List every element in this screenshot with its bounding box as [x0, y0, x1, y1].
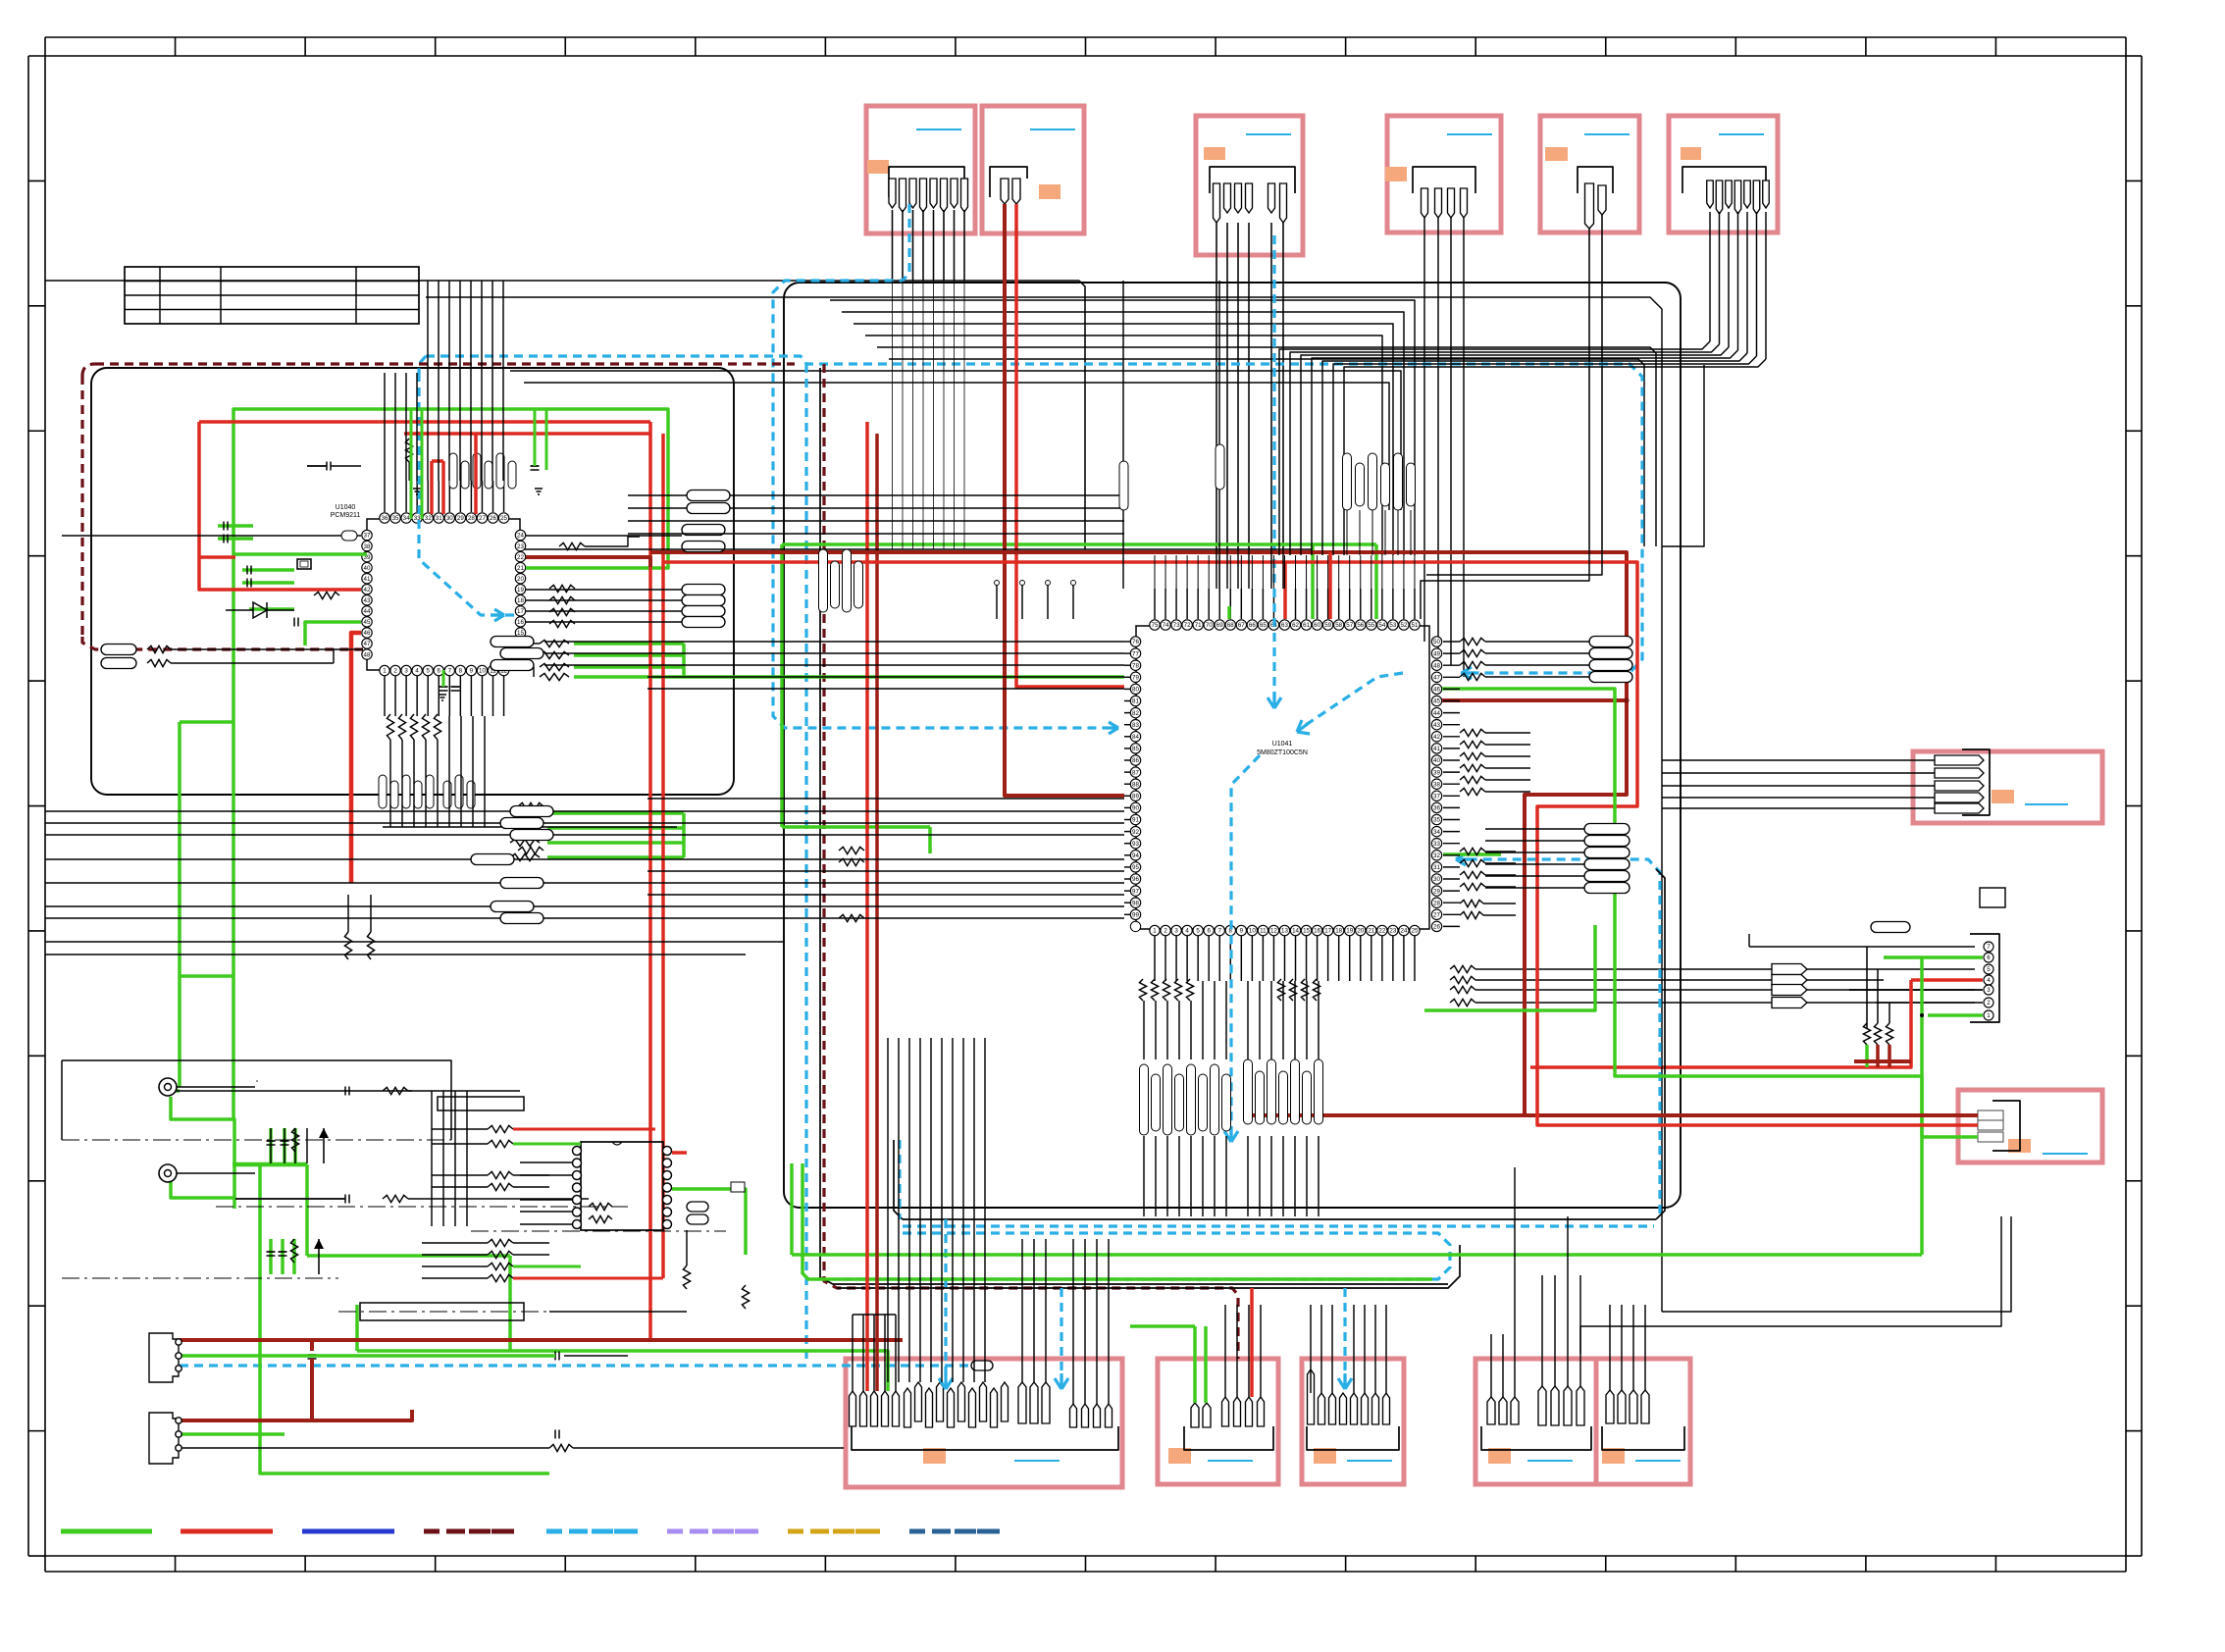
svg-text:57: 57: [1346, 622, 1353, 629]
J1 bundle continues down: [892, 281, 894, 549]
svg-text:34: 34: [1433, 829, 1440, 836]
block outline around U1040: [91, 368, 734, 795]
svg-text:4: 4: [1185, 928, 1189, 935]
svg-text:17: 17: [517, 608, 524, 615]
caps cluster1 black: [270, 1128, 272, 1163]
svg-text:20: 20: [1357, 928, 1364, 935]
left black wire pin37: [62, 535, 361, 537]
connector box J3 (top): [1196, 116, 1303, 255]
salmon highlight J7: [1992, 790, 2014, 803]
U1041 left long wires with flags: [544, 641, 1124, 643]
red short top stubs above U1040: [430, 461, 434, 514]
cyan dashed long top horizontal: [426, 356, 1642, 673]
bottom long black y1337: [549, 1311, 687, 1313]
cyan dashed from J1 pin4 along block edge: [773, 204, 1107, 728]
svg-text:60: 60: [1314, 622, 1320, 629]
U1041 top pin long verticals: [1154, 555, 1156, 589]
green U1040 pin38 stub: [233, 552, 367, 556]
green vertical left long: [232, 554, 235, 1119]
U1040 top pins 36-25: [380, 513, 389, 523]
block outline around U1041: [784, 283, 1681, 1208]
svg-text:PCM9211: PCM9211: [331, 512, 361, 519]
J11 wires: [1310, 1305, 1312, 1393]
opamp out green: [672, 1189, 746, 1255]
red second jack wire: [180, 1419, 312, 1422]
connector box J8 (right lower): [1958, 1090, 2102, 1162]
svg-text:26: 26: [1433, 924, 1440, 931]
green stub pin32 area: [1443, 852, 1501, 856]
salmon highlight J8: [2008, 1139, 2031, 1153]
dark red pin22 route right: [526, 557, 650, 567]
svg-text:37: 37: [1433, 794, 1440, 800]
resistors right bottom pins 27/26: [1460, 900, 1483, 906]
phone jack TRS2: [159, 1164, 177, 1182]
svg-text:50: 50: [1433, 639, 1440, 645]
salmon highlight J4: [1385, 167, 1407, 181]
green into U1041 pin94/95 area: [928, 827, 932, 853]
green inner loop right of U1041: [1424, 925, 1595, 1010]
red caps right of U1041: [1854, 1059, 1911, 1063]
svg-text:6: 6: [438, 668, 441, 675]
svg-text:3: 3: [1174, 928, 1178, 935]
svg-text:28: 28: [1433, 900, 1440, 906]
resistors below CN: [1863, 1023, 1870, 1045]
svg-text:91: 91: [1132, 817, 1139, 824]
bracket J13: [1602, 1426, 1684, 1450]
svg-text:12: 12: [1270, 928, 1277, 935]
resistor net pins 23: [559, 542, 585, 549]
bottom bus under U1040: [383, 826, 677, 828]
main IC U1041 5M80ZT100C5N body: [1136, 626, 1429, 929]
U1041 bottom pins 1-25: [1150, 925, 1160, 935]
wires J6 down: [1709, 212, 1711, 341]
opamp in wires: [520, 1162, 573, 1163]
svg-text:87: 87: [1132, 769, 1139, 776]
svg-text:5: 5: [1987, 966, 1991, 973]
svg-text:33: 33: [1433, 841, 1440, 848]
bracket J3: [1210, 167, 1295, 193]
svg-text:55: 55: [1368, 622, 1374, 629]
svg-text:18: 18: [1335, 928, 1342, 935]
black verticals between capsule and boxes mid: [1021, 1239, 1023, 1382]
green riser x807: [790, 1163, 794, 1255]
maroon dashed vertical center: [824, 364, 1238, 1359]
svg-text:54: 54: [1378, 622, 1385, 629]
U1041 top pins 75-51: [1150, 620, 1160, 630]
green lower rows below U1040: [547, 811, 684, 815]
connector box J4 (top): [1387, 116, 1501, 232]
green left column x183: [178, 722, 181, 1087]
svg-text:17: 17: [1324, 928, 1331, 935]
resistor rows middle: [488, 1125, 513, 1132]
svg-text:47: 47: [1433, 675, 1440, 682]
svg-text:21: 21: [517, 565, 524, 572]
svg-text:45: 45: [1433, 698, 1440, 705]
green rows into resistors: [510, 809, 540, 816]
wires continue below capsule to bottom boxes: [887, 1038, 889, 1382]
diode up arrow 2: [314, 1239, 324, 1249]
svg-text:35: 35: [392, 515, 399, 522]
connector box J7 (right middle): [1913, 751, 2102, 823]
svg-text:40: 40: [1433, 757, 1440, 764]
crystal X1: [297, 559, 311, 569]
svg-text:16: 16: [517, 619, 524, 626]
cyan dashed from top into U1041: [1272, 235, 1275, 704]
connector box J13 (bottom): [1596, 1359, 1690, 1484]
green above U1040: [410, 409, 413, 519]
svg-text:42: 42: [1433, 734, 1440, 741]
svg-text:80: 80: [1132, 687, 1139, 694]
svg-text:2: 2: [1987, 1000, 1991, 1007]
svg-text:7: 7: [1218, 928, 1222, 935]
svg-text:66: 66: [1249, 622, 1256, 629]
salmon highlight J1: [867, 160, 889, 174]
J9 left pins wires: [852, 1315, 854, 1391]
dark red leftward extension at 1137: [1244, 1113, 1525, 1117]
bracket J10: [1184, 1426, 1273, 1450]
svg-text:6: 6: [1987, 955, 1991, 961]
green caps cluster2: [269, 1239, 273, 1274]
resistor R left pin41: [314, 592, 339, 598]
svg-text:53: 53: [1389, 622, 1396, 629]
svg-text:5: 5: [426, 668, 430, 675]
green bottom-left to J9: [357, 1351, 888, 1391]
cyan dashed diagonal from pin47 side: [1297, 673, 1403, 731]
maroon dashed bottom to U1040 pin47: [82, 637, 363, 649]
pins J9 group3: [1018, 1382, 1026, 1423]
pins J12: [1487, 1397, 1495, 1424]
red jack cap branch: [310, 1340, 314, 1351]
svg-text:45: 45: [364, 619, 371, 626]
svg-text:5M80ZT100C5N: 5M80ZT100C5N: [1257, 749, 1308, 756]
underline J8: [2043, 1153, 2088, 1155]
svg-text:43: 43: [1433, 722, 1440, 729]
svg-text:13: 13: [1281, 928, 1288, 935]
svg-text:95: 95: [1132, 864, 1139, 871]
cyan dashed down to J9: [944, 1219, 947, 1385]
legend wire colour samples: [61, 1529, 152, 1534]
flag left y662: [101, 645, 136, 655]
svg-text:°: °: [256, 1079, 259, 1087]
pins J7: [1935, 755, 1984, 765]
svg-text:69: 69: [1216, 622, 1223, 629]
cyan dashed capsule to right riser: [1456, 859, 1660, 1213]
svg-text:14: 14: [1292, 928, 1299, 935]
svg-text:88: 88: [1132, 781, 1139, 788]
svg-text:37: 37: [364, 533, 371, 540]
svg-text:4: 4: [1987, 977, 1991, 984]
svg-text:44: 44: [364, 608, 371, 615]
bracket J2: [990, 167, 1027, 197]
svg-text:67: 67: [1238, 622, 1245, 629]
7-pin connector CN (right): [1970, 934, 1999, 1022]
svg-text:U1041: U1041: [1272, 741, 1293, 748]
svg-text:20: 20: [517, 576, 524, 583]
svg-text:18: 18: [517, 597, 524, 604]
green caps cluster1: [269, 1128, 273, 1164]
black net joins above J12: [1567, 1216, 1569, 1275]
black line return y1313: [837, 1245, 1460, 1288]
cyan dashed stub J9 right: [1060, 1288, 1062, 1385]
red caps pair left: [199, 555, 235, 559]
right mid wires: [1485, 732, 1530, 734]
black partner of maroon vertical: [820, 368, 1448, 1284]
pins J13: [1606, 1390, 1614, 1423]
cyan dashed bottom-left long wire: [180, 1364, 971, 1367]
salmon highlight J2: [1039, 184, 1061, 199]
series resistors to flags y1230: [589, 1203, 612, 1210]
svg-text:65: 65: [1260, 622, 1267, 629]
black capsule border: [903, 1218, 1656, 1220]
svg-text:77: 77: [1132, 650, 1139, 657]
svg-text:30: 30: [446, 515, 453, 522]
shield box outline: [62, 1060, 451, 1140]
green wire CN pin6 route: [1920, 957, 1924, 1255]
svg-text:94: 94: [1132, 852, 1139, 859]
diode up arrow 1: [319, 1128, 329, 1138]
svg-text:73: 73: [1173, 622, 1180, 629]
svg-text:44: 44: [1433, 710, 1440, 717]
svg-text:7: 7: [448, 668, 452, 675]
svg-text:97: 97: [1132, 888, 1139, 895]
no-connect stubs U1041 left: [996, 585, 998, 619]
green U1041 area: pin columns: [1227, 606, 1231, 619]
resistor net right pins 20-17: [549, 585, 575, 592]
vertical net x1737: [1662, 365, 1704, 546]
red top rectangle around U1040: [199, 420, 650, 424]
green caps pair left of U1040: [218, 524, 253, 528]
U1041 left pin wires: [1124, 641, 1130, 643]
maroon dashed left side: [80, 376, 83, 637]
svg-text:42: 42: [364, 587, 371, 594]
svg-text:2: 2: [1164, 928, 1167, 935]
caps cluster2 black: [267, 1251, 276, 1253]
red drops into U1041 top pins: [1283, 562, 1287, 619]
green segments crystal area: [242, 568, 294, 572]
svg-text:43: 43: [364, 597, 371, 604]
svg-text:19: 19: [517, 587, 524, 594]
underline J7: [2025, 803, 2068, 805]
svg-text:99: 99: [1132, 912, 1139, 919]
bracket J12: [1481, 1426, 1591, 1450]
svg-text:40: 40: [364, 565, 371, 572]
wires U1040 top to bus: [384, 373, 386, 481]
svg-text:29: 29: [1433, 888, 1440, 895]
red vertical long x664: [648, 422, 652, 1340]
bracket J7: [1962, 749, 1990, 815]
revision table: [125, 267, 419, 324]
svg-text:98: 98: [1132, 900, 1139, 906]
svg-text:24: 24: [1400, 928, 1407, 935]
svg-text:15: 15: [1303, 928, 1310, 935]
green pin14/13 rows right of U1040: [574, 642, 684, 645]
svg-text:26: 26: [490, 515, 496, 522]
cyan dashed down from center to bottom: [1231, 755, 1260, 1138]
svg-text:7: 7: [1987, 944, 1991, 951]
U1041 left pins 76-100: [1130, 637, 1140, 646]
pins J10: [1191, 1403, 1199, 1427]
pins J2: [1001, 179, 1009, 204]
resistor clusters right mid: [1460, 729, 1485, 736]
svg-text:36: 36: [382, 515, 388, 522]
svg-text:U1040: U1040: [336, 504, 356, 511]
svg-text:25: 25: [500, 515, 507, 522]
diode D1: [253, 602, 267, 618]
svg-text:76: 76: [1132, 639, 1139, 645]
red thick pair to J9: [865, 422, 869, 1391]
svg-text:46: 46: [1433, 687, 1440, 694]
caps left of U1040 group1: [223, 522, 225, 531]
bracket J9: [852, 1426, 1118, 1450]
green left drop to pin79: [782, 825, 930, 829]
svg-text:3: 3: [1987, 987, 1991, 994]
cyan dashed capsule upper: [903, 1224, 1654, 1227]
svg-text:90: 90: [1132, 805, 1139, 812]
svg-text:36: 36: [1433, 805, 1440, 812]
svg-text:59: 59: [1324, 622, 1331, 629]
svg-text:85: 85: [1132, 746, 1139, 752]
green jack2 route: [171, 1173, 234, 1198]
flags between blocks: [687, 490, 730, 501]
J12 left pins wires: [1490, 1334, 1492, 1397]
green into J8: [1922, 1135, 1978, 1139]
resistor cluster right of U1041 top: [1460, 638, 1485, 645]
L nets right of J12: [1580, 1216, 2001, 1354]
svg-text:6: 6: [1207, 928, 1211, 935]
mid dash labels: [471, 1230, 726, 1232]
green thick segment y1187: [233, 1162, 307, 1167]
wires pins 14 13 to resistors: [526, 643, 540, 645]
svg-text:83: 83: [1132, 722, 1139, 729]
cyan arrowhead at U1041 pin93: [1107, 722, 1118, 734]
connector box J2 (top): [982, 106, 1084, 233]
green long row to U1041 pin79: [574, 675, 1124, 679]
legend wire colour samples: [61, 1529, 152, 1534]
svg-text:51: 51: [1412, 622, 1419, 629]
svg-text:48: 48: [1433, 662, 1440, 669]
svg-text:89: 89: [1132, 794, 1139, 800]
pins J11: [1308, 1369, 1315, 1424]
connector box J12 (bottom): [1475, 1359, 1596, 1484]
sheet border left ruler: [27, 56, 29, 1556]
red vertical into J10 area: [1250, 1288, 1254, 1397]
svg-text:8: 8: [459, 668, 463, 675]
pill on J1 long bundle: [1119, 461, 1128, 510]
svg-text:23: 23: [517, 543, 524, 550]
wires J5 down: [1588, 229, 1590, 549]
svg-text:72: 72: [1184, 622, 1191, 629]
flags right mid column: [1584, 824, 1630, 835]
red wire CN pin4 route: [1530, 980, 1911, 1067]
svg-text:71: 71: [1195, 622, 1202, 629]
mid verticals black: [431, 1091, 433, 1226]
svg-text:2: 2: [393, 668, 397, 675]
U1041 bottom wires to capsule: [1143, 1001, 1145, 1059]
black jack2 bottom wire: [181, 1447, 549, 1449]
svg-text:31: 31: [436, 515, 442, 522]
jack boxes bottom-left: [149, 1333, 179, 1382]
svg-text:49: 49: [1433, 650, 1440, 657]
svg-text:70: 70: [1206, 622, 1213, 629]
svg-text:35: 35: [1433, 817, 1440, 824]
svg-text:23: 23: [1389, 928, 1396, 935]
chassis dash-dot line 2: [62, 1277, 338, 1279]
opamp U1042 body: [581, 1142, 663, 1230]
svg-text:39: 39: [1433, 769, 1440, 776]
J5 wires down: [1421, 549, 1589, 619]
J12/J13 wires: [1541, 1275, 1543, 1386]
opamp pins right: [663, 1147, 672, 1156]
series cap + resistor jack1: [177, 1090, 412, 1092]
cap above U1040 left: [326, 462, 328, 471]
wires to flags right top: [1516, 641, 1589, 643]
series cap + resistor jack2: [344, 1195, 346, 1204]
chassis dash-dot line 3: [216, 1206, 628, 1208]
green vertical x520: [508, 1256, 512, 1351]
svg-text:41: 41: [364, 576, 371, 583]
svg-text:25: 25: [1412, 928, 1419, 935]
red pin46 thick: [351, 633, 361, 883]
wires J7 left: [1662, 759, 1935, 761]
pill above U1041 left: [1216, 444, 1224, 490]
small rect top right: [1980, 888, 2005, 907]
U1041 bottom resistor cluster A: [1139, 979, 1146, 1001]
wires J3 down: [1216, 223, 1217, 549]
sheet border right ruler: [2125, 56, 2127, 1556]
svg-text:30: 30: [1433, 876, 1440, 883]
green J10 pins pair: [1193, 1326, 1197, 1403]
chassis dash-dot line 1: [62, 1139, 451, 1141]
green jack1 route down: [171, 1097, 234, 1209]
pins J3: [1214, 183, 1220, 223]
svg-text:82: 82: [1132, 710, 1139, 717]
red segments to resistor rows: [513, 1128, 655, 1131]
svg-text:79: 79: [1132, 675, 1139, 682]
svg-text:78: 78: [1132, 662, 1139, 669]
caps below U1040 left: [440, 686, 448, 688]
bus horizontals to CN connector: [1450, 965, 1475, 972]
J3 bundle elbows to U1041: [1216, 549, 1217, 589]
svg-text:93: 93: [1132, 841, 1139, 848]
salmon highlight J5: [1545, 147, 1568, 161]
svg-text:32: 32: [425, 515, 432, 522]
pins J9 group4: [1070, 1404, 1077, 1427]
wires J1 to bus: [892, 210, 894, 281]
U1041 bottom pill flags A: [1140, 1064, 1149, 1135]
right low short wires: [1485, 851, 1516, 852]
green wire CN pin1 junction: [1920, 1013, 1924, 1017]
U1040 right pins 24-13: [515, 530, 525, 540]
sheet border top ruler: [45, 36, 2126, 38]
connector box J6 (top): [1669, 116, 1778, 232]
svg-text:68: 68: [1227, 622, 1234, 629]
salmon highlight J3: [1204, 147, 1225, 160]
red left mid horizontal y1366: [180, 1338, 903, 1342]
bracket J6: [1682, 167, 1766, 193]
svg-text:29: 29: [457, 515, 464, 522]
svg-text:56: 56: [1357, 622, 1364, 629]
bracket J8: [1992, 1101, 2020, 1151]
green U1041 pin46 route to CN: [1442, 689, 1865, 1076]
J6 bundle to left elbows: [1279, 341, 1710, 555]
bracket J11: [1307, 1426, 1399, 1450]
svg-text:22: 22: [517, 554, 524, 561]
wires pins24-17 to flags: [526, 535, 682, 537]
U1041 bottom resistor cluster B: [1277, 979, 1284, 1001]
resistor pair right of opamp: [683, 1265, 690, 1289]
bracket J4: [1413, 167, 1475, 193]
svg-text:52: 52: [1400, 622, 1407, 629]
